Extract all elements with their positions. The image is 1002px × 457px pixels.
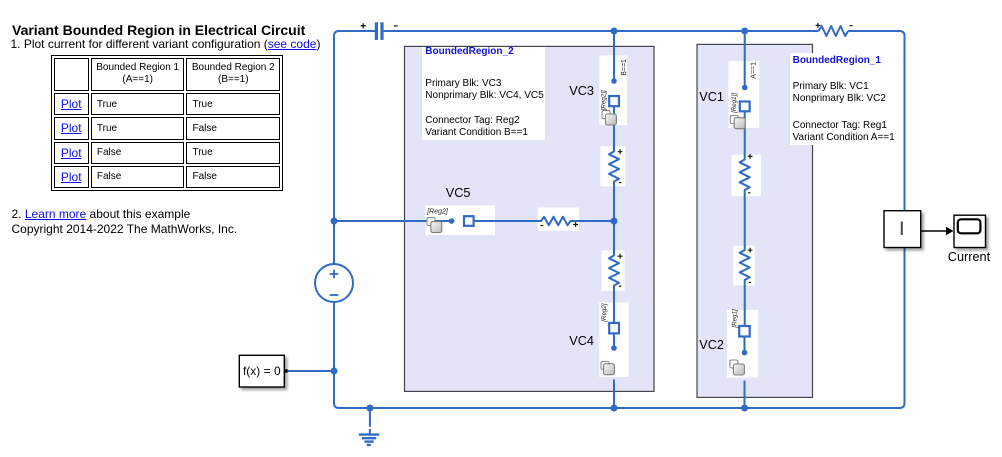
block background VC1 [729, 61, 760, 128]
resistor R6 polarity labels [816, 23, 853, 28]
block name label VC4 [569, 335, 594, 347]
block background VC4 [599, 302, 628, 377]
voltage source V1 [315, 264, 353, 302]
wire node to resistor R2 zigzag down to VC4 [609, 221, 619, 323]
node junction bottom bus / VC4 [611, 405, 618, 412]
svg-text:f(x) = 0: f(x) = 0 [243, 364, 281, 378]
port square VC4 [609, 323, 619, 334]
wire branch VC1 from top bus [744, 31, 746, 88]
block background resistor R2 [602, 250, 625, 291]
node junction top bus / VC3 [611, 28, 618, 35]
scope block Current [954, 215, 986, 247]
block background resistor R3 [732, 155, 761, 197]
node junction VC5 / VC3 branch [611, 218, 618, 225]
signal arrow sensor to scope [921, 227, 954, 236]
capacitor C1 [375, 22, 384, 40]
block name label VC1 [699, 91, 724, 103]
wire end dot VC4 [611, 345, 617, 351]
svg-text:A==1: A==1 [751, 62, 758, 79]
svg-text:[Reg2]: [Reg2] [426, 208, 449, 215]
LEFT TEXT COLUMN [12, 23, 305, 37]
cube icon VC2 [730, 360, 745, 375]
block name label VC2 [699, 339, 724, 351]
port square VC2 [739, 326, 750, 337]
wire VC3 through resistor R1 (zigzag) down to node [609, 107, 619, 222]
block background VC5 [426, 206, 496, 236]
wire top right corner down to current sensor [848, 31, 904, 211]
wire branch VC3 from top bus [613, 31, 615, 81]
node junction bottom bus / ground [366, 405, 373, 412]
resistor R2 polarity labels [618, 254, 623, 286]
wire end dot VC1 [742, 85, 748, 91]
current sensor block [884, 211, 921, 248]
svg-text:B==1: B==1 [621, 59, 628, 76]
wire VC2 to bottom bus [744, 381, 746, 409]
block background VC3 [599, 55, 627, 125]
wire left vertical top with corner [334, 31, 375, 264]
resistor R1 polarity labels [618, 149, 623, 182]
node junction left bus / solver [331, 368, 338, 375]
variant bounded region BoundedRegion_1 [697, 44, 813, 397]
annotation BoundedRegion_1 [790, 53, 900, 145]
port square VC1 [740, 102, 750, 112]
wire VC5 port to resistor R5 zigzag to node [473, 217, 614, 225]
node junction top bus / VC1 [741, 28, 748, 35]
voltage source V1 plus label [330, 270, 339, 279]
resistor R4 polarity labels [748, 248, 753, 283]
block name label Current [948, 251, 990, 263]
node junction left bus / VC5 [331, 218, 338, 225]
port square VC3 [609, 96, 619, 106]
annotation BoundedRegion_2 [422, 47, 545, 140]
block background resistor R5 [538, 208, 579, 231]
resistor R5 polarity labels [540, 222, 578, 227]
block name label VC3 [569, 85, 594, 97]
block background VC2 [727, 310, 758, 378]
block name label VC5 [446, 187, 471, 199]
svg-text:[Reg1]: [Reg1] [731, 309, 738, 329]
wire end dot VC2 [742, 350, 748, 356]
wire VC1 through resistor R3 and resistor R4 zigzags down to VC2 [740, 111, 750, 326]
voltage source V1 minus label [330, 294, 339, 296]
resistor R6 (top) [819, 26, 849, 36]
solver block port nub [284, 369, 287, 372]
wire from current sensor down, bottom bus, up to source [334, 248, 905, 409]
wire VC2 port stub [744, 337, 746, 352]
TABLE [51, 55, 284, 191]
resistor R3 polarity labels [748, 154, 753, 193]
block background resistor R4 [733, 246, 755, 285]
svg-text:[Reg2]]: [Reg2]] [600, 90, 607, 111]
wire end dot VC5 [449, 218, 455, 224]
cube icon VC5 [427, 218, 442, 233]
cube icon VC4 [601, 361, 615, 374]
svg-text:[Reg2]: [Reg2] [601, 303, 608, 323]
wire VC5 branch from left bus [334, 220, 452, 222]
node junction bottom bus / VC2 [741, 405, 748, 412]
wire top bus [384, 30, 819, 32]
svg-text:[Reg1]]: [Reg1]] [731, 93, 738, 114]
capacitor C1 polarity labels [361, 23, 398, 28]
cube icon VC3 [602, 111, 616, 125]
wire from solver block to left bus [288, 370, 334, 372]
wire VC4 port stub [613, 334, 615, 348]
port square VC5 [464, 216, 474, 226]
variant bounded region BoundedRegion_2 [405, 46, 655, 391]
solver block f(x)=0 [239, 355, 284, 387]
wire end dot VC3 [611, 78, 617, 84]
wire VC4 to bottom bus [613, 380, 615, 409]
ground G1 [359, 408, 379, 445]
block background resistor R1 [600, 146, 625, 186]
cube icon VC1 [730, 116, 745, 129]
